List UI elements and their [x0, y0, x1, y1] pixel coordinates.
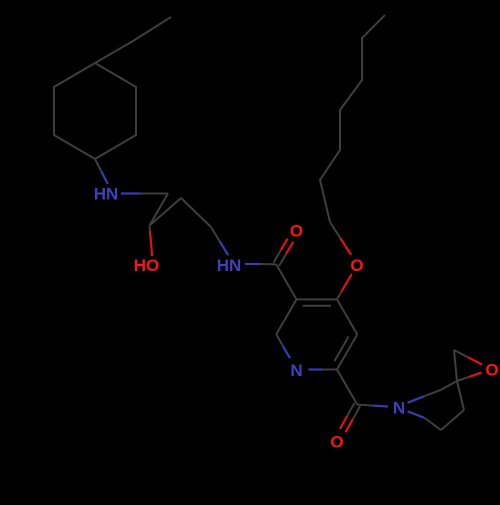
- wire bond: C7 to azetidine N4 (gray half + blue half): [357, 405, 372, 406]
- wire bond: C4 to pyridine ring C5: [276, 264, 296, 299]
- svg-text:HN: HN: [217, 256, 242, 275]
- svg-text:N: N: [290, 361, 302, 380]
- wire chain: alkyl zigzag rising from Ca to top: [320, 15, 385, 222]
- ring R3 azetidine wire bonds (blue halves at N4, gray halves): [408, 396, 425, 403]
- wire chain: R1 top vertex to ethyl end: [95, 17, 171, 63]
- svg-text:O: O: [350, 256, 363, 275]
- wire bond: C1 to carbinol C2: [150, 194, 169, 226]
- svg-text:HN: HN: [94, 185, 119, 204]
- wire bond: C2 to chain apex Cm: [150, 198, 182, 226]
- svg-text:O: O: [485, 361, 498, 380]
- ring R2 pyridine C-C edges with inner aromatic lines: [276, 299, 357, 369]
- svg-text:O: O: [330, 433, 343, 452]
- wire bond: ether O3 to alkyl chain Ca (red half + gray half): [341, 238, 352, 255]
- svg-text:O: O: [290, 222, 303, 241]
- wire bond: C2 to hydroxyl O1 (gray half + red half): [149, 226, 152, 232]
- wire bond: ring C2ring to ring N3 (gray half + blue half): [323, 369, 337, 371]
- ring R1 cyclohexyl (6 C-C wire bonds): [54, 63, 136, 159]
- wire bond: N2 to carbonyl C4 (blue half + gray half): [245, 263, 261, 265]
- svg-text:HO: HO: [134, 256, 160, 275]
- wire bond: ring C6 to ring N3 (gray half + blue half): [276, 334, 283, 346]
- wire bond: ring C2ring to carbonyl C7: [337, 370, 357, 405]
- svg-text:N: N: [393, 399, 405, 418]
- wire bond: C3 to amide N2 (gray half + blue half): [211, 227, 220, 241]
- double bond C4=O2 amide carbonyl (two parallel lines, gray+red halves): [279, 254, 286, 266]
- double bond C7=O4 carbonyl (two parallel lines, gray+red halves): [347, 403, 354, 416]
- wire bond: N1 to chain C1 (blue half + gray half): [121, 192, 140, 194]
- ring R4 oxirane: C-C edge and two C-O bonds (gray half + red half): [454, 350, 457, 381]
- wire bond: R1-C4 to amine N1 (gray half + blue half): [95, 159, 101, 172]
- inner double-bond lines: [303, 305, 332, 307]
- wire bond: ring C4ring to ether O3 (gray half + red half): [337, 292, 342, 300]
- wire bond: apex Cm to C3: [181, 198, 211, 227]
